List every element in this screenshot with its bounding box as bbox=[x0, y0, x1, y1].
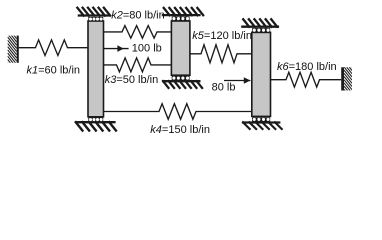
svg-text:k2=80 lb/in: k2=80 lb/in bbox=[111, 9, 165, 21]
svg-text:80 lb: 80 lb bbox=[212, 82, 236, 94]
svg-text:k1=60 lb/in: k1=60 lb/in bbox=[27, 65, 81, 77]
svg-text:100 lb: 100 lb bbox=[132, 43, 162, 55]
svg-text:k4=150 lb/in: k4=150 lb/in bbox=[150, 124, 210, 136]
svg-text:k6=180 lb/in: k6=180 lb/in bbox=[277, 61, 337, 73]
svg-text:k3=50 lb/in: k3=50 lb/in bbox=[105, 74, 159, 86]
svg-text:k5=120 lb/in: k5=120 lb/in bbox=[192, 30, 252, 42]
